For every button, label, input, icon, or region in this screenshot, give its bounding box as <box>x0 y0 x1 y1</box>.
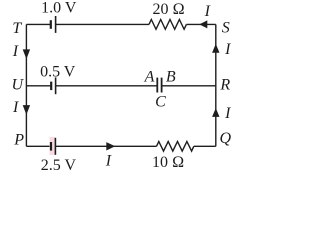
resistor R1 20 ohm zigzag <box>149 20 186 30</box>
wire top right segment <box>186 23 215 25</box>
wire middle left segment <box>26 85 51 87</box>
svg-text:S: S <box>222 19 230 36</box>
wire right vertical <box>215 24 217 146</box>
wire bottom left segment <box>26 145 51 147</box>
svg-text:2.5 V: 2.5 V <box>41 157 77 174</box>
battery B3 2.5 V short plate <box>50 142 52 151</box>
current arrow bottom pointing right <box>106 142 115 150</box>
svg-text:C: C <box>155 94 166 111</box>
capacitor C right plate <box>161 78 163 93</box>
svg-text:20 Ω: 20 Ω <box>152 1 184 18</box>
battery B3 2.5 V long plate <box>54 138 56 155</box>
pink highlight behind battery B3 <box>50 137 56 155</box>
svg-text:10 Ω: 10 Ω <box>152 154 184 171</box>
wire left vertical <box>25 24 27 146</box>
resistor R2 10 ohm zigzag <box>157 142 194 152</box>
svg-text:P: P <box>13 132 24 149</box>
svg-text:I: I <box>224 41 231 58</box>
svg-text:T: T <box>12 20 22 37</box>
wire top left segment <box>26 23 50 25</box>
current arrow left lower pointing down <box>23 105 30 115</box>
wire bottom middle segment <box>55 145 156 147</box>
svg-text:0.5 V: 0.5 V <box>40 63 76 80</box>
svg-text:A: A <box>144 68 155 85</box>
svg-text:U: U <box>12 77 25 94</box>
wire bottom right segment <box>194 145 216 147</box>
battery B1 1.0 V short plate <box>50 20 52 29</box>
battery B2 0.5 V short plate <box>50 82 52 91</box>
current arrow right upper pointing up <box>212 44 219 53</box>
svg-text:R: R <box>219 77 230 94</box>
svg-text:I: I <box>224 105 231 122</box>
current arrow right lower pointing up <box>212 108 219 117</box>
battery B1 1.0 V long plate <box>55 16 57 33</box>
svg-text:I: I <box>12 99 19 116</box>
current arrow left upper pointing down <box>23 49 30 59</box>
svg-text:1.0 V: 1.0 V <box>41 0 77 17</box>
capacitor C left plate <box>156 78 158 93</box>
svg-text:I: I <box>105 153 112 170</box>
battery B2 0.5 V long plate <box>55 77 57 94</box>
svg-text:B: B <box>166 68 176 85</box>
current arrow top pointing left <box>199 20 207 28</box>
svg-text:I: I <box>204 3 211 20</box>
svg-text:I: I <box>12 43 19 60</box>
wire top middle segment <box>56 23 149 25</box>
svg-text:Q: Q <box>220 130 232 147</box>
wire middle right segment <box>162 85 216 87</box>
wire middle center segment <box>56 85 158 87</box>
